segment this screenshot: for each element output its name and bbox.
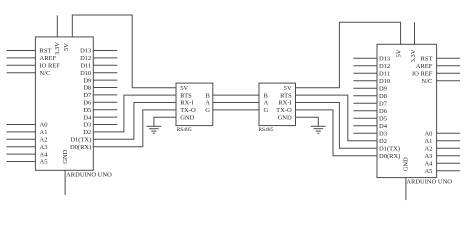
U1 pin D7 stub	[93, 94, 117, 96]
svg-text:A2: A2	[40, 137, 48, 144]
svg-text:A4: A4	[424, 161, 433, 168]
svg-text:RST: RST	[40, 48, 52, 55]
svg-text:GND: GND	[278, 115, 292, 122]
svg-text:D8: D8	[379, 93, 387, 100]
svg-text:AREF: AREF	[40, 55, 57, 62]
svg-text:RX-I: RX-I	[180, 100, 193, 107]
U4 pin D4 stub	[353, 125, 377, 127]
wire net left D0(RX) to U2 TX-O	[93, 110, 176, 147]
svg-text:G: G	[205, 107, 210, 114]
wire net U3 GND to ground	[296, 117, 319, 126]
svg-text:IO REF: IO REF	[40, 63, 61, 70]
svg-text:5V: 5V	[284, 85, 292, 92]
svg-text:RS485: RS485	[177, 127, 192, 133]
svg-text:A3: A3	[40, 144, 48, 151]
svg-text:A: A	[205, 100, 210, 107]
U4 pin A2 stub	[437, 147, 460, 149]
module U3 RS485 (right) body	[259, 83, 296, 126]
U1 pin D8 stub	[93, 87, 117, 89]
wire net 5V right: U3 5V to U4 5V pin	[296, 22, 401, 87]
svg-text:3.3V: 3.3V	[54, 42, 61, 55]
svg-text:D12: D12	[379, 63, 390, 70]
U1 pin A1 stub	[7, 131, 36, 133]
IC U4 ARDUINO UNO (right) body	[377, 44, 437, 177]
svg-text:D0(RX): D0(RX)	[379, 153, 400, 160]
U4 pin A1 stub	[437, 140, 460, 142]
svg-text:D11: D11	[80, 63, 91, 70]
svg-text:RS485: RS485	[258, 127, 273, 133]
U4 pin GND stub	[405, 178, 407, 201]
wire net 5V left: U1 5V pin to U2 5V	[72, 15, 176, 88]
svg-text:GND: GND	[62, 149, 69, 163]
svg-text:D5: D5	[379, 116, 387, 123]
svg-text:ARDUINO UNO: ARDUINO UNO	[66, 172, 112, 179]
svg-text:TX-O: TX-O	[180, 107, 196, 114]
U4 pin D11 stub	[353, 72, 377, 74]
svg-text:D6: D6	[83, 100, 92, 107]
svg-text:B: B	[206, 92, 211, 99]
svg-text:D5: D5	[83, 107, 91, 114]
wire net U3 RX-I to right D1(TX)	[296, 103, 378, 149]
U4 pin D12 stub	[353, 65, 377, 67]
svg-text:RST: RST	[420, 56, 432, 63]
U4 pin N/C stub	[437, 80, 460, 82]
wire net B (U2 B to U3 B)	[213, 94, 259, 96]
U1 pin N/C stub	[7, 72, 36, 74]
svg-text:IO REF: IO REF	[412, 71, 433, 78]
wire net U3 TX-O to right D0(RX)	[296, 110, 378, 156]
U1 pin A0 stub	[7, 124, 36, 126]
U1 pin A3 stub	[7, 146, 36, 148]
svg-text:G: G	[264, 107, 269, 114]
svg-text:GND: GND	[403, 157, 410, 171]
svg-text:A3: A3	[424, 153, 432, 160]
svg-text:A1: A1	[40, 129, 48, 136]
U4 pin A3 stub	[437, 155, 460, 157]
U1 pin D11 stub	[93, 64, 117, 66]
svg-text:5V: 5V	[63, 43, 70, 51]
svg-text:D12: D12	[80, 55, 91, 62]
svg-text:RTS: RTS	[180, 92, 192, 99]
svg-text:A0: A0	[424, 131, 432, 138]
wire net left D2 to U2 RTS	[93, 95, 176, 132]
svg-text:D2: D2	[379, 138, 387, 145]
svg-text:RTS: RTS	[280, 92, 292, 99]
U4 pin D9 stub	[353, 87, 377, 89]
U1 pin A2 stub	[7, 138, 36, 140]
wire net U3 RTS to right D2	[296, 95, 378, 141]
svg-text:D10: D10	[379, 78, 390, 85]
svg-text:D7: D7	[83, 92, 92, 99]
svg-text:D3: D3	[379, 131, 387, 138]
svg-text:AREF: AREF	[416, 63, 433, 70]
U4 pin D13 stub	[353, 57, 377, 59]
U4 pin 3.3V stub	[414, 22, 416, 44]
svg-text:ARDUINO UNO: ARDUINO UNO	[406, 179, 452, 186]
wire net left D1(TX) to U2 RX-I	[93, 103, 176, 140]
U1 pin D13 stub	[93, 50, 117, 52]
svg-text:D10: D10	[80, 70, 91, 77]
svg-text:A1: A1	[424, 138, 432, 145]
U4 pin D7 stub	[353, 102, 377, 104]
svg-text:A5: A5	[424, 168, 432, 175]
svg-text:D4: D4	[83, 114, 92, 121]
svg-text:A4: A4	[40, 151, 49, 158]
U1 pin A5 stub	[7, 161, 36, 163]
svg-text:D7: D7	[379, 101, 388, 108]
wire net G (U2 G to U3 G)	[213, 109, 259, 111]
U1 pin D12 stub	[93, 57, 117, 59]
U4 pin A5 stub	[437, 170, 460, 172]
svg-text:5V: 5V	[396, 49, 403, 57]
svg-text:A: A	[264, 100, 269, 107]
svg-text:D1(TX): D1(TX)	[379, 146, 400, 153]
ground symbol left	[146, 125, 161, 127]
U4 pin A4 stub	[437, 162, 460, 164]
U1 pin GND stub	[64, 170, 66, 195]
svg-text:D8: D8	[83, 85, 91, 92]
U1 pin AREF stub	[7, 57, 36, 59]
U4 pin D6 stub	[353, 110, 377, 112]
svg-text:A5: A5	[40, 159, 48, 166]
U4 pin AREF stub	[437, 65, 460, 67]
svg-text:D6: D6	[379, 108, 388, 115]
U1 pin D9 stub	[93, 79, 117, 81]
U1 pin IO REF stub	[7, 64, 36, 66]
svg-text:D9: D9	[379, 86, 387, 93]
U1 pin D6 stub	[93, 101, 117, 103]
U4 pin D8 stub	[353, 95, 377, 97]
U1 pin D10 stub	[93, 72, 117, 74]
svg-text:D13: D13	[379, 56, 390, 63]
svg-text:A0: A0	[40, 122, 48, 129]
svg-text:D4: D4	[379, 123, 388, 130]
svg-text:GND: GND	[180, 115, 194, 122]
U1 pin D5 stub	[93, 109, 117, 111]
U4 pin RST stub	[437, 57, 460, 59]
U1 pin RST stub	[7, 50, 36, 52]
svg-text:D0(RX): D0(RX)	[70, 144, 91, 151]
U1 pin A4 stub	[7, 153, 36, 155]
svg-text:N/C: N/C	[422, 78, 433, 85]
svg-text:D11: D11	[379, 71, 390, 78]
IC U1 ARDUINO UNO (left) body	[35, 37, 93, 170]
U4 pin D5 stub	[353, 117, 377, 119]
U4 pin D10 stub	[353, 80, 377, 82]
U4 pin IO REF stub	[437, 72, 460, 74]
svg-text:D13: D13	[80, 48, 91, 55]
U1 pin D3 stub	[93, 124, 117, 126]
svg-text:A2: A2	[424, 146, 432, 153]
svg-text:RX-I: RX-I	[278, 100, 291, 107]
svg-text:N/C: N/C	[40, 70, 51, 77]
svg-text:TX-O: TX-O	[276, 107, 292, 114]
module U2 RS485 (left) body	[176, 83, 213, 126]
wire net U2 GND to ground	[154, 117, 176, 126]
svg-text:D3: D3	[83, 122, 91, 129]
wire net A (U2 A to U3 A)	[213, 102, 259, 104]
svg-text:3.3V: 3.3V	[410, 49, 417, 62]
U4 pin D3 stub	[353, 132, 377, 134]
svg-text:D2: D2	[83, 129, 91, 136]
svg-text:D1(TX): D1(TX)	[70, 137, 91, 144]
U1 pin 3.3V stub	[56, 15, 58, 37]
U1 pin D4 stub	[93, 116, 117, 118]
ground symbol right	[311, 125, 326, 127]
U4 pin A0 stub	[437, 132, 460, 134]
svg-text:5V: 5V	[180, 85, 188, 92]
svg-text:B: B	[264, 92, 269, 99]
svg-text:D9: D9	[83, 77, 91, 84]
